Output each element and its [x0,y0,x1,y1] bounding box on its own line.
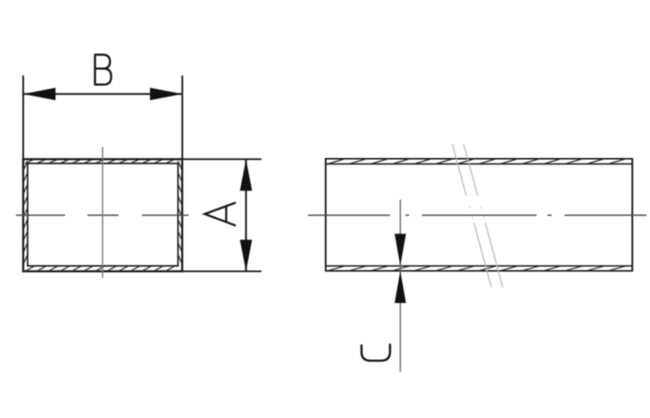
dimension A extension line (bottom) [182,270,261,272]
horizontal centerline of right view (dash-dot) [308,214,647,216]
centerline dot 1 [406,214,410,216]
left end cap [325,158,327,272]
break line 1 (upper segment) [452,144,466,196]
section hatching: bottom wall [25,266,175,271]
bottom wall inner line [326,265,633,267]
break line 2 (faint middle) [481,206,485,219]
section hatching: top wall [25,159,175,163]
bottom wall outer line [326,270,633,272]
label C (rotated) [362,345,391,361]
dimension A line [245,160,247,271]
label B [95,55,111,85]
dimension A extension line (top) [182,158,261,160]
right end cap [631,158,633,272]
dimension B line [24,93,182,95]
break line 2 (upper segment) [464,144,478,196]
arrowhead B right [150,88,182,101]
arrowhead A top [240,159,252,191]
top wall inner line [326,163,633,165]
hatching: right view top wall [328,159,626,164]
dimension C line [399,200,401,372]
vertical centerline of left view [102,147,104,278]
break line 1 (faint middle) [469,206,473,219]
label A (rotated) [205,203,235,225]
hatching: right view bottom wall [328,266,626,271]
top wall outer line [326,158,633,160]
section hatching: right wall [178,161,182,264]
arrowhead A bottom [240,240,252,272]
section hatching: left wall [23,161,27,264]
arrowhead C upper (points down to wall) [395,234,406,266]
inner rectangle [28,163,178,266]
break line 2 (lower segment) [485,223,502,288]
arrowhead C lower (points up to wall) [395,271,406,303]
dimension B extension line (right) [181,76,183,160]
dimension B extension line (left) [22,76,24,160]
centerline dot 2 [548,214,552,216]
outer rectangle [23,159,182,271]
horizontal centerline of left view (dash-dot) [16,214,189,216]
arrowhead B left [23,88,55,101]
break line 1 (lower segment) [474,223,491,288]
